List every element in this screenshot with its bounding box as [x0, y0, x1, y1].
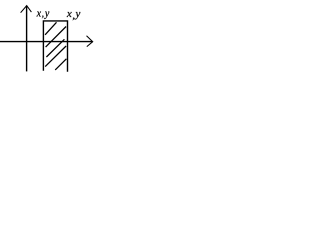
svg-text:x,y: x,y [66, 8, 81, 21]
svg-text:x,y: x,y [36, 9, 50, 20]
